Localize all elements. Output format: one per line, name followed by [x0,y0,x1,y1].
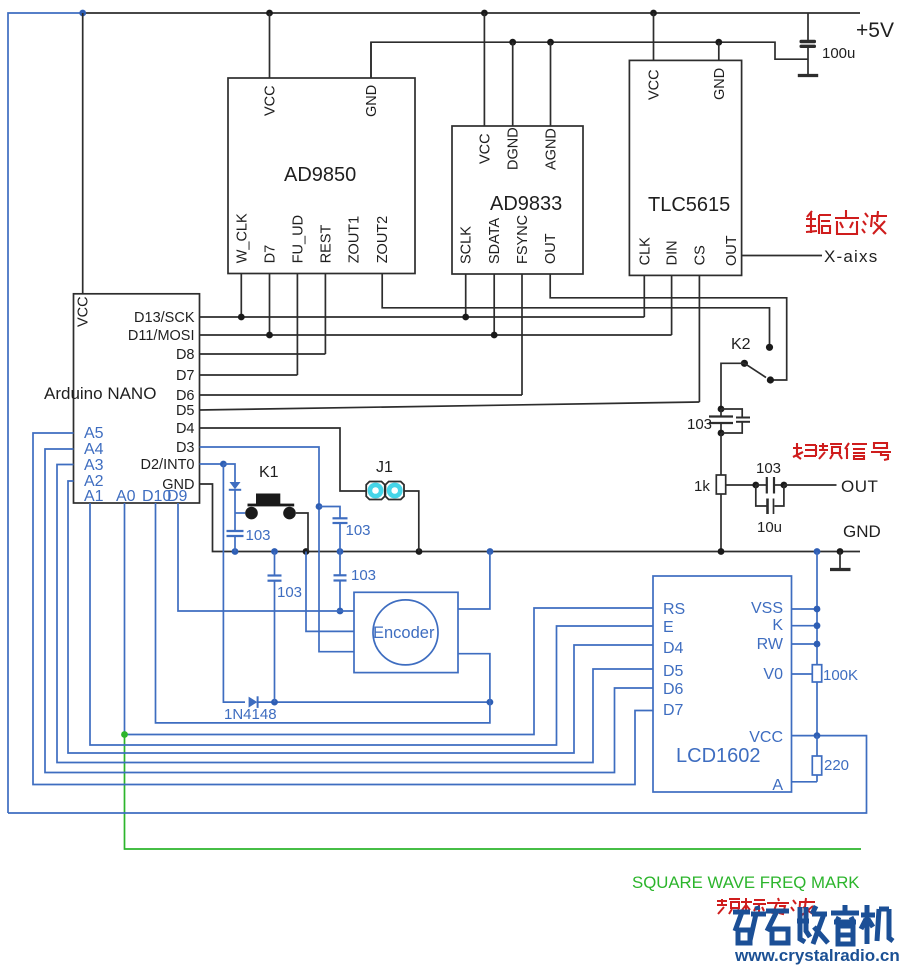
svg-text:1N4148: 1N4148 [224,706,277,723]
op-amp U4 Arduino NANO box [44,294,200,503]
svg-text:A: A [772,777,783,794]
pin VCC TLC5615 [647,13,663,100]
ground symbol right end [830,552,851,570]
label sweep signal red 扫频信号 [793,443,891,460]
wire encoder right pin1 to rail [458,552,490,610]
svg-text:D13/SCK: D13/SCK [134,310,195,326]
node rail junctions [232,548,844,555]
svg-text:OUT: OUT [724,235,740,266]
svg-text:103: 103 [687,416,712,433]
wire A stub [792,781,818,783]
svg-text:D11/MOSI: D11/MOSI [128,328,195,344]
svg-text:SDATA: SDATA [487,217,503,264]
resistor 220 [812,736,849,782]
svg-text:AGND: AGND [544,128,560,170]
pin GND TLC5615 [712,42,728,100]
svg-text:VCC: VCC [647,69,663,100]
op-amp U3 TLC5615 box [629,60,741,275]
wire D11/MOSI bus [200,334,672,336]
svg-text:K2: K2 [731,336,751,353]
node SCLK junction [462,314,469,321]
svg-text:D5: D5 [663,663,684,680]
pin REST AD9850 [318,224,334,354]
svg-text:A4: A4 [84,441,104,458]
pin GND AD9850 [364,42,380,117]
wire VCC net bottom [8,736,867,813]
svg-text:D4: D4 [663,640,684,657]
node +5V rail junctions [79,10,657,17]
wire D6 to FSYNC [200,394,523,396]
svg-text:D7: D7 [176,368,195,384]
wire GND top rail [371,42,808,78]
pin ZOUT2 AD9850 wire to K2 [375,216,769,348]
svg-text:GND: GND [712,68,728,100]
switch K2 [731,336,774,384]
svg-text:CLK: CLK [637,237,653,266]
svg-text:A1: A1 [84,488,104,505]
resistor 100K [792,665,859,736]
wire D2 branch down to 1N4148 [223,464,245,702]
svg-text:D3: D3 [176,440,195,456]
svg-text:OUT: OUT [841,477,878,496]
svg-text:D6: D6 [663,681,684,698]
svg-text:LCD1602: LCD1602 [676,745,761,767]
svg-text:A0: A0 [116,488,136,505]
wire D8 to REST [200,353,326,355]
wire K2 pole to cap [721,363,744,409]
pin FSYNC AD9833 [515,215,531,395]
svg-text:10u: 10u [757,519,782,536]
svg-text:REST: REST [318,224,334,263]
label sawtooth red 锯齿波 [806,210,887,234]
wire encoder right pin2 to 1N4148 node [458,654,490,702]
svg-text:D8: D8 [176,347,195,363]
svg-text:103: 103 [277,584,302,601]
encoder box [354,592,458,672]
wire VCC stub [792,735,818,737]
wire D3 blue to Encoder [200,447,355,652]
svg-text:A5: A5 [84,425,104,442]
wire LCD right chain [816,552,818,665]
svg-text:TLC5615: TLC5615 [648,194,730,216]
svg-text:103: 103 [756,460,781,477]
svg-text:RS: RS [663,601,685,618]
svg-text:SQUARE WAVE FREQ MARK: SQUARE WAVE FREQ MARK [632,873,860,892]
node AD9850 D7 junction [266,332,273,339]
wire A3 to LCD D5 [57,465,653,763]
pushbutton K1 [245,464,296,519]
svg-text:1k: 1k [694,478,710,495]
op-amp U1 AD9850 box [228,78,415,274]
capacitor 103 output coupling [726,460,837,494]
pin SDATA AD9833 [487,217,503,335]
capacitor 103 near J1 [333,518,371,551]
svg-text:AD9833: AD9833 [490,193,562,215]
resistor 1k [694,433,726,552]
pin FU_UD AD9850 [290,215,306,375]
ground under 100u [798,74,818,77]
node W_CLK junction [238,314,245,321]
op-amp U2 AD9833 box [452,126,583,274]
svg-text:ZOUT2: ZOUT2 [375,216,391,264]
svg-text:OUT: OUT [543,233,559,264]
pin OUT AD9833 wire to K2 throw B [543,233,787,380]
wire D13/SCK bus [200,316,645,318]
pin DIN TLC5615 [665,240,681,335]
logo crystalradio chinese 矿石收音机 [733,905,893,945]
svg-text:D7: D7 [263,245,279,264]
wire RW stub [792,643,818,645]
pin SCLK AD9833 [459,226,475,317]
wire VSS stub [792,608,818,610]
label freq mark square red 频标方波 [717,898,815,915]
wire +5V rail blue segment [8,13,83,813]
wire A4 to LCD D6 [45,449,653,773]
svg-text:VSS: VSS [751,600,783,617]
LCD1602 box [653,576,792,792]
svg-text:A3: A3 [84,457,104,474]
svg-text:W_CLK: W_CLK [234,213,250,263]
svg-text:GND: GND [843,522,881,541]
svg-text:GND: GND [364,85,380,117]
svg-text:SCLK: SCLK [459,226,475,264]
diode 1N4148 [224,696,490,723]
svg-text:DGND: DGND [506,127,522,170]
svg-text:K: K [772,617,783,634]
svg-text:VCC: VCC [477,133,493,164]
svg-text:Arduino NANO: Arduino NANO [44,384,156,403]
pin VCC AD9833 [477,13,493,164]
svg-text:D2/INT0: D2/INT0 [141,457,195,473]
wire green square wave mark [125,735,862,850]
wire A0 to RS with green tap [124,503,126,735]
wire K1 right contact to rail [296,513,308,552]
svg-text:103: 103 [351,567,376,584]
svg-text:DIN: DIN [665,240,681,265]
svg-text:www.crystalradio.cn: www.crystalradio.cn [734,946,900,965]
svg-text:E: E [663,619,674,636]
wire D10 loop [156,503,490,723]
svg-text:X-aixs: X-aixs [824,247,878,266]
wire rail to encoder pin2 [306,552,354,632]
svg-text:D6: D6 [176,388,195,404]
capacitor 10u parallel [756,485,784,536]
capacitor 103 below K2 [687,406,733,437]
capacitor 103 above encoder [334,552,377,615]
pin VCC AD9850 [263,13,279,116]
svg-text:103: 103 [246,527,271,544]
wire +5V rail [83,12,860,14]
wire D2/INT0 blue [200,463,224,465]
svg-text:FU_UD: FU_UD [290,215,306,263]
svg-text:ZOUT1: ZOUT1 [347,216,363,264]
svg-text:220: 220 [824,757,849,774]
node GND top rail junctions [509,39,722,46]
svg-text:V0: V0 [763,666,783,683]
svg-text:VCC: VCC [263,85,279,116]
wire D5 to CS [200,402,700,410]
svg-text:+5V: +5V [856,19,894,42]
wire J1 right to rail [404,491,419,552]
svg-text:103: 103 [346,522,371,539]
pin AGND AD9833 [544,42,560,170]
svg-text:VCC: VCC [76,296,92,327]
svg-text:100K: 100K [823,667,858,684]
pin CLK TLC5615 [637,237,653,317]
diode D2 branch [229,482,241,513]
wire A1 to E [90,503,653,745]
node 1N4148 junctions [271,699,493,706]
connector J1 [366,459,404,500]
pin W_CLK AD9850 [234,213,250,317]
capacitor 103 left of encoder [268,552,303,703]
node D3 junction [316,503,323,510]
wire A5 to LCD D7 [33,433,653,785]
svg-text:RW: RW [757,636,784,653]
svg-text:D7: D7 [663,702,684,719]
svg-text:K1: K1 [259,464,279,481]
pin DGND AD9833 [506,42,522,170]
wire D3 branch to cap [319,507,340,518]
svg-text:FSYNC: FSYNC [515,215,531,264]
trimmer capacitor beside 103 [721,409,750,433]
wire D2 to diode branch [223,464,235,482]
svg-text:Encoder: Encoder [373,624,435,642]
capacitor C 100u [800,13,817,75]
wire GND pin Arduino to rail [200,484,861,552]
node SDATA junction [491,332,498,339]
pin CS TLC5615 [692,245,708,402]
pin VCC Arduino [76,13,92,327]
svg-text:D9: D9 [167,488,188,505]
svg-text:D5: D5 [176,403,195,419]
wire D9 to encoder pin1 [178,503,354,611]
wire D7 to FU_UD [200,374,298,376]
node D2 junction [220,461,227,468]
svg-text:AD9850: AD9850 [284,164,356,186]
wire D4 to J1 [200,428,367,491]
svg-text:J1: J1 [376,459,393,476]
node green junction [121,731,128,738]
capacitor 103 at K1 [227,513,271,552]
svg-text:VCC: VCC [749,729,783,746]
svg-text:100u: 100u [822,45,855,62]
wire K1 left contact [235,512,245,514]
pin OUT TLC5615 wire to X-aixs [724,235,822,266]
wire K stub [792,625,818,627]
svg-text:CS: CS [692,245,708,265]
wire A2 to LCD D4 [68,481,653,753]
svg-text:D4: D4 [176,421,195,437]
pin D7 AD9850 [263,245,279,335]
